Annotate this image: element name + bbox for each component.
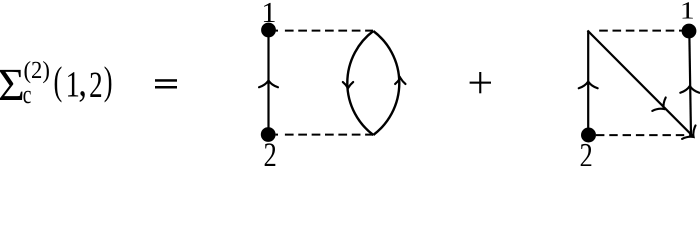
svg-text:c: c (23, 80, 32, 109)
svg-text:1: 1 (680, 0, 695, 24)
svg-text:Σ: Σ (0, 59, 25, 110)
svg-text:(: ( (54, 58, 63, 103)
svg-text:,: , (78, 60, 87, 106)
svg-text:): ) (104, 58, 113, 103)
svg-text:2: 2 (89, 65, 103, 106)
svg-text:(2): (2) (24, 57, 50, 84)
